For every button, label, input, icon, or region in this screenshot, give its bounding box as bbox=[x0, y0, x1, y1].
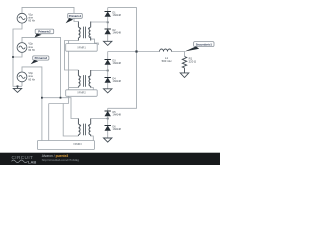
svg-text:XFMR3: XFMR3 bbox=[73, 143, 82, 146]
svg-text:1N4148: 1N4148 bbox=[113, 114, 122, 117]
svg-text:1N4148: 1N4148 bbox=[113, 80, 122, 83]
svg-text:1N4148: 1N4148 bbox=[113, 62, 122, 65]
svg-text:XFMR2: XFMR2 bbox=[77, 92, 86, 95]
svg-text:http://circuitlab.com/c/7vb4kg: http://circuitlab.com/c/7vb4kg bbox=[42, 158, 80, 162]
svg-text:1N4148: 1N4148 bbox=[113, 128, 122, 131]
svg-text:60 Hz: 60 Hz bbox=[28, 49, 35, 52]
svg-text:Alvaron / puente3: Alvaron / puente3 bbox=[42, 154, 69, 158]
svg-text:Secundario1: Secundario1 bbox=[196, 42, 213, 46]
svg-text:220 Ω: 220 Ω bbox=[189, 60, 197, 64]
svg-text:500 mH: 500 mH bbox=[162, 59, 172, 63]
svg-text:Primario2: Primario2 bbox=[38, 30, 51, 34]
svg-text:Primario3: Primario3 bbox=[35, 56, 48, 60]
svg-text:1N4148: 1N4148 bbox=[113, 32, 122, 35]
svg-text:Primario1: Primario1 bbox=[69, 14, 82, 18]
svg-text:XFMR1: XFMR1 bbox=[77, 46, 86, 49]
svg-text:60 Hz: 60 Hz bbox=[28, 78, 35, 81]
svg-text:LAB: LAB bbox=[28, 159, 36, 164]
svg-text:60 Hz: 60 Hz bbox=[28, 20, 35, 23]
svg-text:1N4148: 1N4148 bbox=[113, 14, 122, 17]
